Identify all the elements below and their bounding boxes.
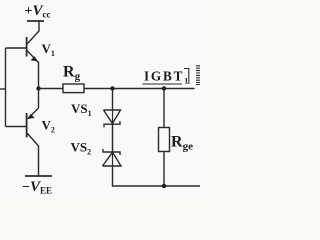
transistor V1 emitter [27,51,39,63]
transistor V2 emitter [28,108,39,119]
wire V2 base [6,126,27,128]
transistor V1 emitter arrow [31,57,37,61]
node zener branch [110,86,114,90]
wire to VS1 [112,89,114,111]
wire VS2 to bottom rail [113,166,201,186]
wire through zeners [112,110,114,166]
IGBT edge hatch [196,66,200,85]
transistor V2 base bar [26,113,28,138]
transistor V2 emitter arrow [28,115,34,119]
node Rge branch [162,86,166,90]
resistor Rge [159,128,170,152]
wire Rge to bottom rail [163,152,165,187]
wire V2 emitter vertical [38,89,40,109]
wire V1 base [6,47,27,49]
wire VS1 to VS2 [112,124,114,153]
transistor V1 base bar [26,37,28,57]
wire left input rail [5,48,7,127]
power rail -VEE bar [25,175,52,177]
wire V1 emitter to node [38,62,40,89]
zener VS1 triangle [104,110,121,124]
transistor V2 collector [27,133,39,176]
zener VS1 cathode bar [104,121,120,127]
IGBT bracket [184,69,189,85]
wire node to Rg [39,88,64,90]
node output junction [36,86,40,90]
power rail +Vcc bar [27,20,44,22]
wire input stub [0,88,6,90]
zener VS2 triangle [103,152,122,166]
wire V1 collector to +Vcc [28,21,40,44]
wire node to Rge [163,89,165,128]
zener VS2 cathode bar [103,149,120,155]
IGBT label underline [143,83,183,85]
node Rge bottom junction [162,184,166,188]
svg-text:IGBT1: IGBT1 [144,69,188,86]
resistor Rg [63,84,84,93]
wire Rg to IGBT gate [84,88,195,90]
